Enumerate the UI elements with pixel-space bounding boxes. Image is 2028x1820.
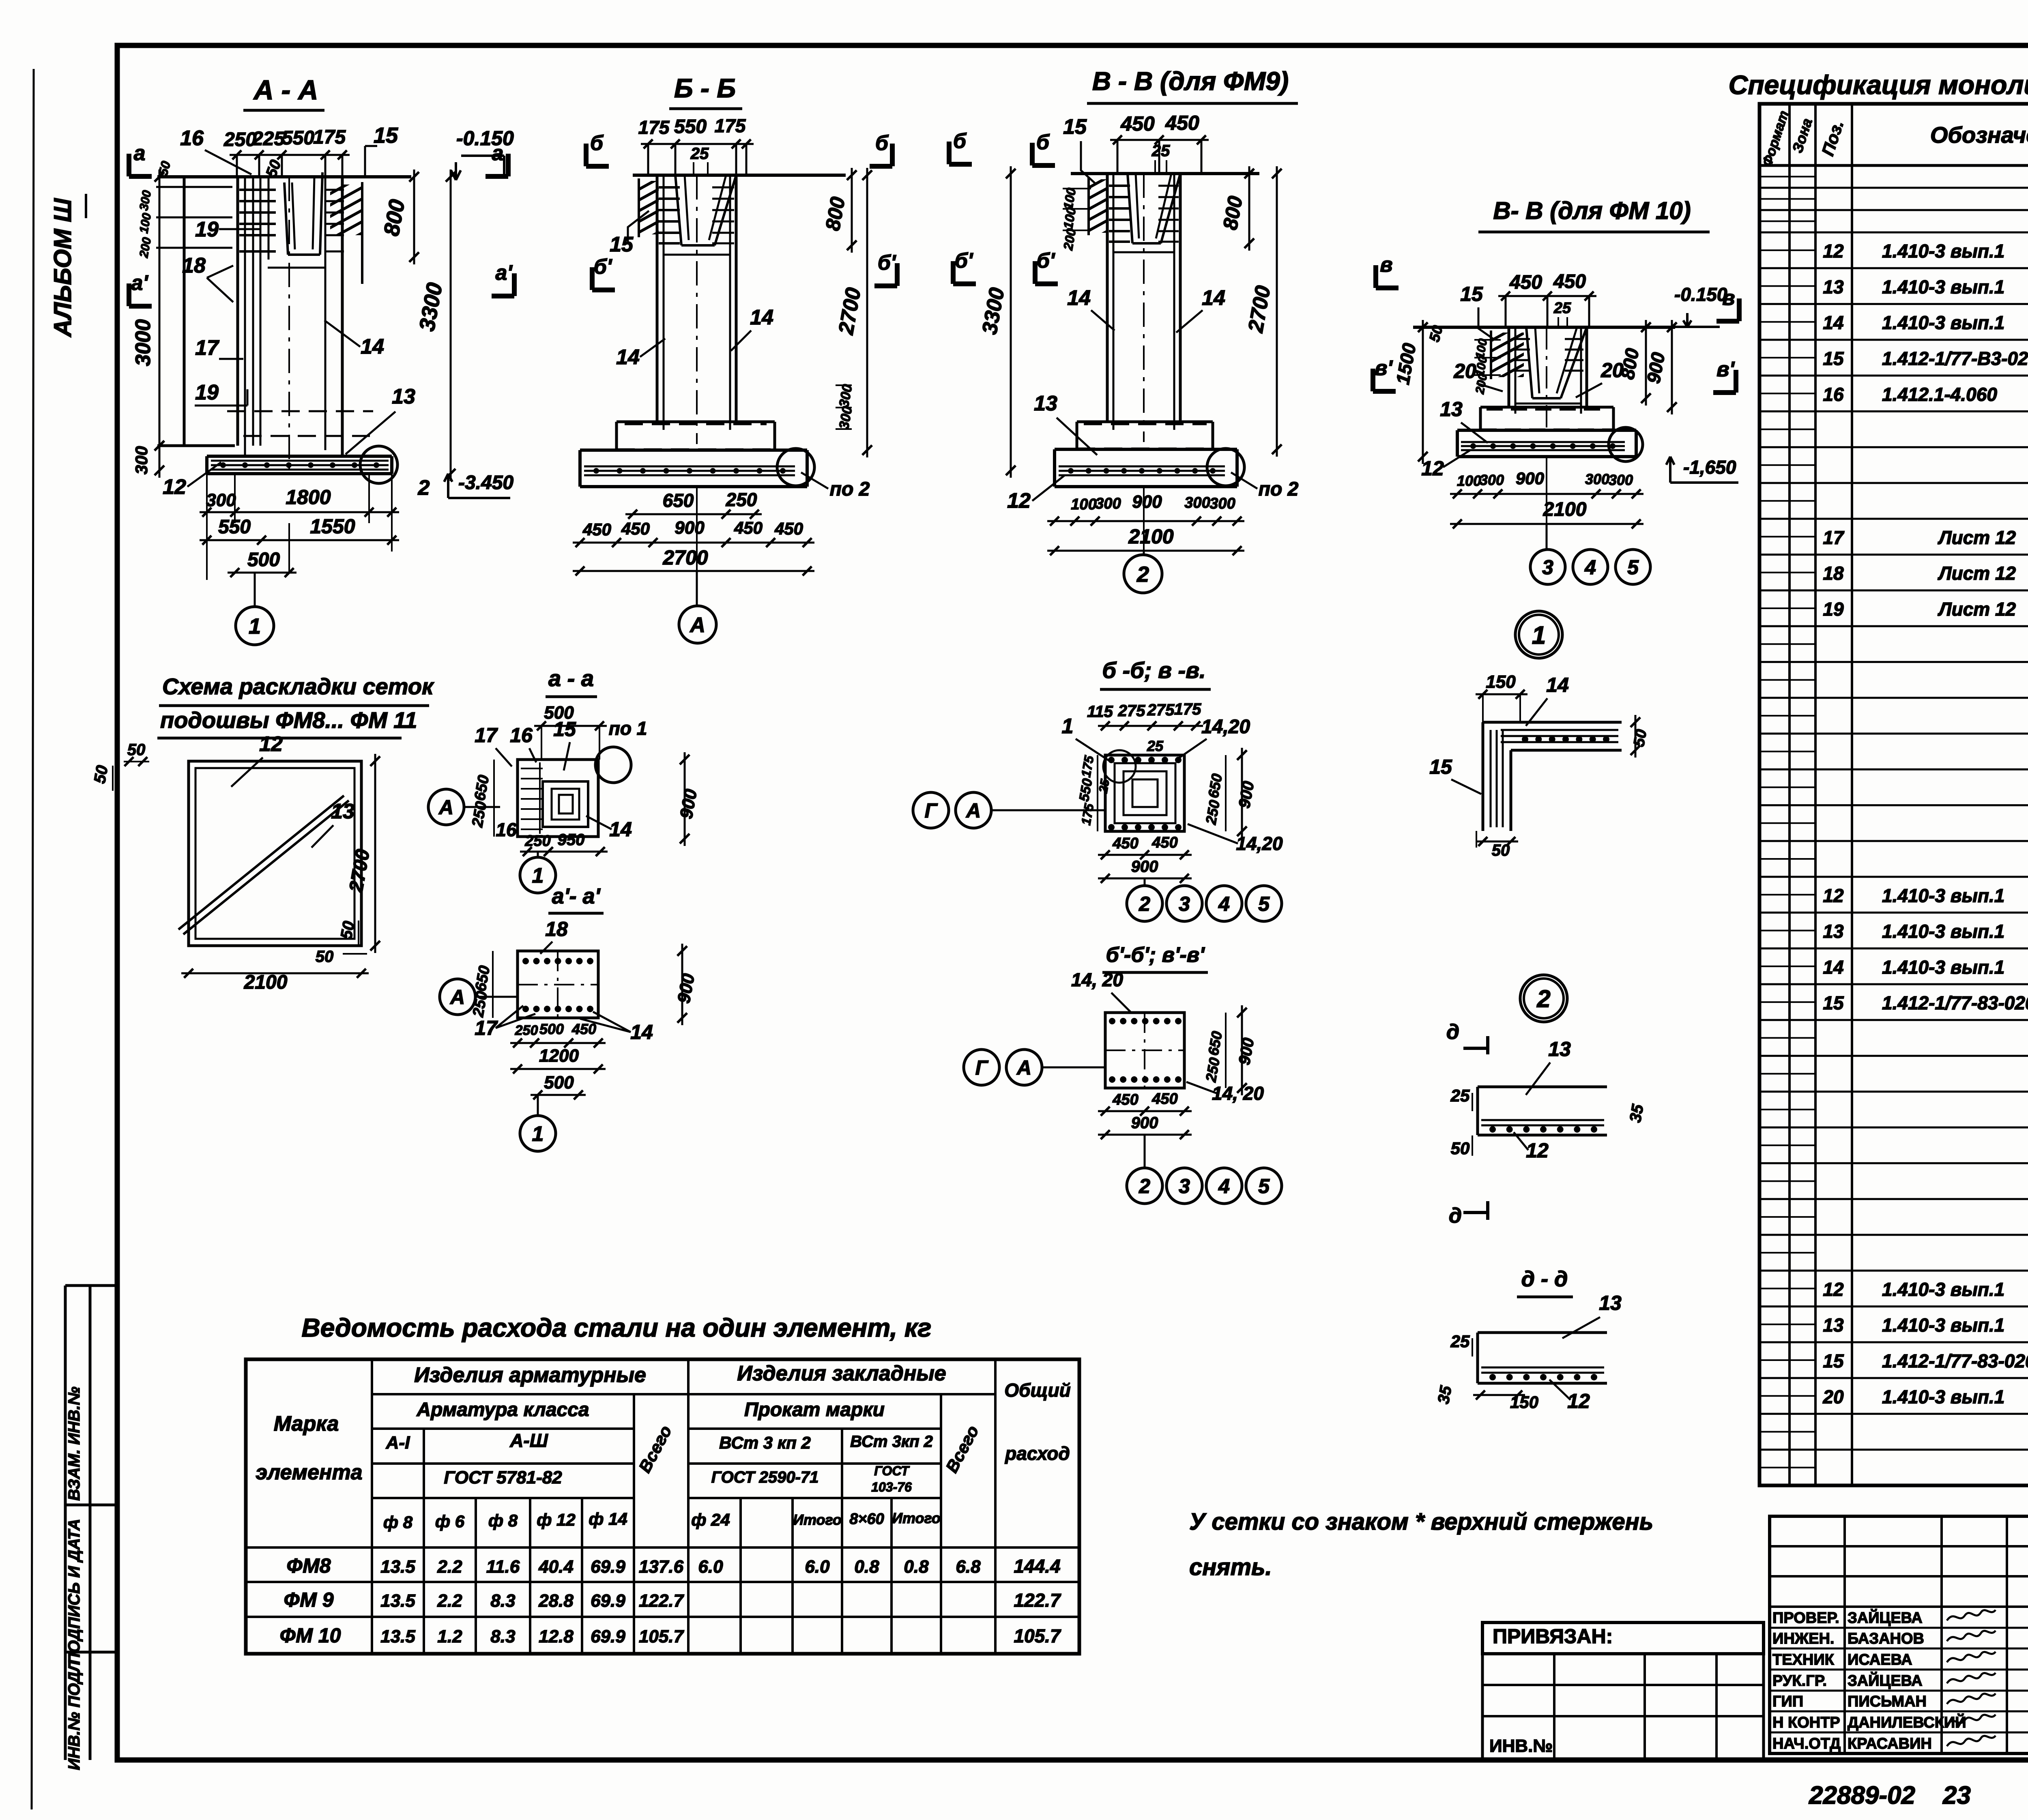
svg-text:ФМ 10: ФМ 10 — [280, 1624, 341, 1647]
svg-text:2100: 2100 — [1128, 525, 1173, 548]
section A-A ground line — [157, 175, 411, 178]
svg-text:б': б' — [955, 249, 973, 273]
svg-text:1.412.1-4.060: 1.412.1-4.060 — [1882, 384, 1997, 405]
svg-text:12: 12 — [1526, 1139, 1549, 1162]
svg-text:элемента: элемента — [256, 1461, 362, 1484]
detail d-d dims — [1435, 1332, 1590, 1412]
svg-text:275: 275 — [1118, 702, 1145, 720]
svg-text:69.9: 69.9 — [591, 1557, 625, 1577]
section B-B top dims — [638, 115, 754, 175]
section V-V FM9 cut marks — [949, 129, 1058, 284]
svg-text:ГОСТ 2590-71: ГОСТ 2590-71 — [711, 1468, 819, 1486]
svg-text:А: А — [965, 799, 981, 822]
svg-text:16: 16 — [496, 819, 517, 840]
svg-text:ИСАЕВА: ИСАЕВА — [1848, 1651, 1912, 1668]
svg-text:5: 5 — [1258, 1175, 1270, 1198]
svg-text:1.412-1/77-83-020: 1.412-1/77-83-020 — [1882, 1350, 2028, 1371]
section B-B hatch block — [635, 165, 663, 256]
svg-text:300: 300 — [132, 446, 151, 474]
svg-text:12: 12 — [1567, 1390, 1590, 1412]
spec rows FM9 group — [1823, 809, 2028, 1121]
svg-text:1800: 1800 — [286, 486, 331, 509]
svg-text:ф 12: ф 12 — [537, 1510, 576, 1529]
detail 2 big circle — [1520, 975, 1567, 1022]
section A-A cut marks a — [129, 142, 514, 306]
svg-text:150: 150 — [1486, 672, 1516, 692]
svg-text:ЗАЙЦЕВА: ЗАЙЦЕВА — [1848, 1608, 1923, 1627]
svg-text:225: 225 — [252, 128, 285, 150]
section V-V FM10 footing — [1457, 407, 1636, 457]
section V-V FM9 label 14 left — [1067, 286, 1115, 331]
svg-text:Общий: Общий — [1004, 1380, 1070, 1401]
svg-text:4: 4 — [1584, 556, 1596, 579]
svg-text:13.5: 13.5 — [380, 1591, 415, 1611]
section V-V FM10 dim 900 — [1643, 320, 1677, 414]
mesh scheme label 12 — [231, 732, 283, 787]
svg-text:4: 4 — [1218, 893, 1230, 915]
svg-text:144.4: 144.4 — [1014, 1556, 1060, 1577]
section A-A label 12 — [163, 462, 221, 499]
svg-text:а: а — [492, 142, 504, 165]
svg-text:25: 25 — [1450, 1332, 1470, 1351]
svg-text:ГОСТ: ГОСТ — [874, 1464, 910, 1478]
svg-text:ГИП: ГИП — [1772, 1693, 1803, 1710]
svg-text:б': б' — [594, 255, 612, 279]
svg-text:20: 20 — [1453, 360, 1476, 382]
svg-text:122.7: 122.7 — [639, 1591, 685, 1611]
svg-text:103-76: 103-76 — [871, 1480, 912, 1494]
svg-text:в': в' — [1716, 358, 1735, 381]
svg-text:20: 20 — [1822, 1386, 1844, 1407]
svg-text:ф 14: ф 14 — [589, 1509, 627, 1528]
svg-text:250: 250 — [515, 1023, 538, 1038]
svg-text:5: 5 — [1627, 556, 1639, 579]
svg-text:14: 14 — [609, 818, 632, 841]
svg-text:12: 12 — [1823, 885, 1844, 906]
detail b-b v-v title — [1100, 657, 1211, 689]
svg-text:Прокат марки: Прокат марки — [744, 1399, 885, 1421]
svg-text:ф 8: ф 8 — [383, 1513, 413, 1532]
svg-text:300: 300 — [1480, 472, 1504, 488]
svg-text:5: 5 — [1258, 893, 1270, 915]
svg-text:12: 12 — [1007, 489, 1031, 513]
detail 2 cut mark d top — [1446, 1020, 1488, 1054]
svg-text:14, 20: 14, 20 — [1212, 1083, 1264, 1104]
svg-text:550: 550 — [674, 116, 707, 137]
svg-text:2: 2 — [1139, 893, 1150, 915]
mesh scheme plan rectangle — [189, 761, 361, 946]
svg-text:300: 300 — [206, 490, 236, 510]
svg-text:25: 25 — [1096, 778, 1112, 794]
svg-text:б': б' — [878, 251, 896, 275]
section V-V FM9 label 13 — [1034, 392, 1097, 455]
svg-text:13: 13 — [1034, 392, 1057, 415]
detail 2 label 13 — [1526, 1038, 1571, 1095]
svg-text:ВСт 3кп 2: ВСт 3кп 2 — [850, 1433, 933, 1451]
section V-V FM10 left small dims — [1473, 338, 1501, 395]
svg-text:13: 13 — [392, 385, 415, 408]
section B-B dims 650 250 — [625, 489, 762, 519]
section V-V FM10 bottom dims — [1450, 457, 1643, 528]
svg-text:500: 500 — [539, 1021, 564, 1037]
detail b-b label 14 20 bottom — [1188, 824, 1283, 854]
detail b-b label 14 20 top — [1175, 716, 1250, 760]
svg-text:300: 300 — [1184, 494, 1210, 511]
svg-text:15: 15 — [1429, 755, 1452, 778]
svg-text:12.8: 12.8 — [539, 1627, 574, 1646]
svg-text:14: 14 — [1823, 957, 1843, 978]
svg-text:450: 450 — [1509, 272, 1542, 293]
svg-text:13: 13 — [1823, 921, 1844, 942]
section A-A elevation -0.150 — [451, 127, 514, 180]
svg-text:13: 13 — [1823, 276, 1844, 297]
detail b'-b' section view — [1105, 1013, 1184, 1088]
detail b'-b' label 14 20 bottom — [1186, 1082, 1264, 1104]
section A-A label 18 — [182, 254, 233, 302]
section B-B dims 450 row — [573, 518, 814, 547]
svg-text:1.410-3 вып.1: 1.410-3 вып.1 — [1882, 1315, 2004, 1336]
svg-text:б: б — [875, 131, 889, 155]
detail a-a label 14 — [586, 816, 632, 841]
svg-text:Изделия закладные: Изделия закладные — [737, 1362, 946, 1385]
svg-text:450: 450 — [774, 519, 803, 538]
section V-V FM9 label 14 right — [1176, 286, 1225, 333]
svg-text:д - д: д - д — [1521, 1267, 1568, 1291]
specification table grid — [1759, 104, 2028, 1485]
svg-text:1: 1 — [1062, 715, 1074, 738]
svg-text:8.3: 8.3 — [490, 1591, 515, 1611]
svg-text:450: 450 — [1112, 1091, 1138, 1108]
svg-text:17: 17 — [1823, 527, 1845, 548]
steel table grid — [246, 1359, 1079, 1654]
svg-text:450: 450 — [1120, 112, 1155, 135]
svg-text:14: 14 — [1546, 674, 1569, 696]
svg-text:А-Ш: А-Ш — [509, 1430, 548, 1451]
svg-text:ТЕХНИК: ТЕХНИК — [1772, 1651, 1835, 1668]
section B-B ground line — [633, 174, 846, 177]
section V-V FM10 footing circle — [1609, 427, 1643, 461]
svg-text:15: 15 — [1063, 115, 1087, 139]
svg-text:175: 175 — [313, 127, 346, 148]
detail a-a right dim 900 — [676, 752, 701, 846]
svg-text:19: 19 — [1823, 599, 1844, 620]
detail a'-a' left dims — [470, 951, 494, 1019]
section A-A hatch block — [326, 163, 366, 284]
svg-text:15: 15 — [553, 718, 576, 740]
svg-text:д: д — [1446, 1020, 1459, 1044]
detail a'-a' axis circle 1 — [520, 1095, 556, 1151]
svg-text:50: 50 — [1631, 728, 1650, 748]
svg-text:550: 550 — [218, 516, 251, 538]
svg-text:14,20: 14,20 — [1236, 833, 1283, 854]
svg-text:13.5: 13.5 — [380, 1627, 415, 1646]
svg-text:105.7: 105.7 — [639, 1627, 685, 1646]
album label — [49, 194, 86, 338]
svg-text:-0.150: -0.150 — [456, 127, 514, 150]
section B-B label 14 left — [616, 339, 665, 369]
mesh scheme label 13 — [312, 800, 354, 848]
svg-text:175: 175 — [1174, 700, 1201, 718]
section A-A column — [238, 177, 342, 470]
section A-A footing circle — [360, 446, 397, 483]
svg-text:ф 8: ф 8 — [488, 1511, 518, 1530]
svg-text:22889-02: 22889-02 — [1809, 1781, 1915, 1809]
spec rows FM10 group — [1822, 1202, 2028, 1479]
svg-text:6.8: 6.8 — [956, 1557, 981, 1577]
svg-text:б'-б'; в'-в': б'-б'; в'-в' — [1106, 943, 1205, 967]
svg-text:Лист 12: Лист 12 — [1938, 563, 2016, 584]
section B-B right small dims — [836, 383, 855, 431]
svg-text:250: 250 — [726, 489, 757, 510]
svg-text:12: 12 — [1823, 240, 1844, 262]
section V-V FM9 footing — [1055, 422, 1237, 487]
svg-text:50: 50 — [316, 948, 334, 966]
svg-text:а': а' — [131, 271, 148, 295]
section V-V FM9 label po2 — [1231, 472, 1299, 500]
svg-text:50: 50 — [1451, 1139, 1470, 1158]
corner detail 1 L-shape — [1483, 722, 1622, 831]
svg-text:РУК.ГР.: РУК.ГР. — [1772, 1672, 1827, 1689]
detail a'-a' bottom dims — [510, 1021, 606, 1099]
svg-text:б': б' — [1037, 249, 1055, 273]
svg-text:100: 100 — [1071, 496, 1096, 513]
section B-B dim 2700 bottom — [573, 487, 814, 575]
section B-B footing circle — [777, 449, 814, 486]
svg-text:НАЧ.ОТД: НАЧ.ОТД — [1772, 1735, 1841, 1752]
corner detail 1 label 15 — [1429, 755, 1481, 794]
svg-text:ФМ8: ФМ8 — [286, 1554, 331, 1577]
svg-text:50: 50 — [337, 920, 358, 940]
section B-B label 15 — [610, 211, 649, 256]
svg-text:2: 2 — [1136, 562, 1149, 586]
section V-V FM9 title — [1087, 67, 1298, 103]
detail b-b top dims — [1087, 700, 1203, 754]
svg-text:Б - Б: Б - Б — [674, 73, 736, 103]
section V-V FM9 ground line — [1071, 172, 1259, 175]
section A-A rebar hooks — [239, 190, 344, 251]
svg-text:2700: 2700 — [662, 546, 708, 569]
detail a-a plan view — [518, 760, 598, 837]
section V-V FM9 left small dims — [1061, 187, 1091, 251]
section V-V FM10 elevation -1.650 — [1666, 457, 1738, 483]
corner detail 1 dims 150 — [1476, 672, 1527, 722]
section A-A dim 3000 — [131, 170, 164, 453]
svg-text:15: 15 — [610, 233, 634, 256]
svg-text:Лист 12: Лист 12 — [1938, 527, 2016, 548]
svg-text:14: 14 — [1823, 312, 1843, 333]
svg-text:Н КОНТР: Н КОНТР — [1772, 1714, 1840, 1731]
svg-text:14: 14 — [1202, 286, 1225, 310]
svg-text:18: 18 — [182, 254, 206, 277]
svg-text:В- В (для ФМ 10): В- В (для ФМ 10) — [1493, 197, 1691, 224]
svg-text:б -б; в -в.: б -б; в -в. — [1102, 657, 1205, 683]
svg-text:12: 12 — [1823, 1279, 1844, 1300]
svg-text:Г: Г — [925, 799, 938, 822]
detail 2 slab — [1478, 1087, 1607, 1135]
svg-text:А-I: А-I — [386, 1433, 410, 1453]
section V-V FM9 dim 3300 — [978, 166, 1016, 478]
svg-text:2: 2 — [418, 476, 430, 500]
detail 2 dims — [1450, 1086, 1647, 1162]
svg-text:13: 13 — [1440, 398, 1463, 421]
svg-text:450: 450 — [1553, 271, 1586, 292]
spec rows details group — [1823, 488, 2028, 728]
detail a-a title — [546, 665, 597, 697]
svg-text:13: 13 — [1823, 1315, 1844, 1336]
svg-text:12: 12 — [1421, 457, 1444, 480]
svg-text:2: 2 — [1536, 985, 1550, 1013]
section A-A title — [243, 75, 324, 110]
corner detail 1 dim 50 right — [1631, 715, 1650, 758]
section A-A label 19 lower — [195, 381, 247, 406]
svg-text:0.8: 0.8 — [854, 1557, 879, 1577]
svg-text:14: 14 — [1067, 286, 1091, 310]
svg-text:175: 175 — [715, 115, 746, 136]
section B-B label 14 right — [731, 306, 773, 351]
svg-text:8×60: 8×60 — [849, 1511, 884, 1528]
svg-text:450: 450 — [1151, 834, 1177, 851]
svg-text:А - А: А - А — [253, 75, 318, 105]
detail b'-b' title — [1102, 943, 1208, 972]
svg-text:а'- а': а'- а' — [552, 884, 601, 908]
section V-V FM9 rebar hooks — [1109, 186, 1179, 242]
section B-B footing — [580, 422, 807, 487]
svg-text:50: 50 — [127, 741, 146, 759]
section A-A dim 300 left — [132, 438, 164, 478]
section V-V FM10 anchor funnel — [1515, 327, 1587, 403]
svg-text:14: 14 — [361, 335, 384, 358]
svg-text:Г: Г — [975, 1056, 989, 1079]
section A-A label 16 — [180, 127, 251, 174]
svg-text:3: 3 — [1179, 1175, 1190, 1198]
svg-text:Ведомость расхода стали на оди: Ведомость расхода стали на один элемент,… — [302, 1313, 932, 1342]
detail b'-b' bottom dims — [1098, 1090, 1192, 1139]
svg-text:А: А — [449, 986, 465, 1009]
svg-text:300: 300 — [1585, 471, 1609, 487]
svg-text:1.410-3 вып.1: 1.410-3 вып.1 — [1882, 276, 2004, 297]
svg-text:4: 4 — [1218, 1175, 1230, 1198]
detail b-b bottom dims — [1098, 834, 1192, 883]
detail d-d slab — [1478, 1333, 1607, 1383]
below frame annotations — [1809, 1781, 2028, 1809]
detail a-a labels top — [475, 718, 647, 783]
svg-text:115: 115 — [1087, 703, 1113, 721]
svg-text:25: 25 — [1553, 300, 1571, 317]
svg-text:1: 1 — [532, 1122, 544, 1146]
mesh scheme small dims bottom — [316, 920, 367, 966]
section B-B dim 2700 — [834, 168, 872, 457]
section V-V FM10 dim 800 — [1617, 320, 1651, 406]
svg-text:450: 450 — [1151, 1090, 1177, 1107]
svg-text:2.2: 2.2 — [437, 1557, 462, 1577]
svg-text:175: 175 — [638, 117, 670, 138]
title block privyazan grid — [1482, 1654, 1764, 1760]
svg-text:100: 100 — [1457, 472, 1481, 489]
section V-V FM9 label 12 — [1007, 475, 1065, 513]
svg-text:2100: 2100 — [244, 972, 288, 993]
section V-V FM10 title — [1478, 197, 1710, 232]
svg-text:3: 3 — [1542, 556, 1553, 579]
svg-text:900: 900 — [1516, 469, 1544, 488]
svg-text:ВСт 3 кп 2: ВСт 3 кп 2 — [719, 1433, 811, 1452]
svg-text:по 2: по 2 — [1259, 479, 1299, 500]
svg-text:500: 500 — [247, 549, 280, 571]
detail a-a label 16 bottom — [496, 819, 517, 840]
detail b-b datum circles G A — [913, 792, 1105, 828]
section B-B column — [657, 175, 736, 444]
svg-text:Изделия арматурные: Изделия арматурные — [414, 1363, 646, 1387]
section B-B axis circle A — [679, 571, 716, 643]
svg-text:1.410-3 вып.1: 1.410-3 вып.1 — [1882, 921, 2004, 942]
svg-text:ЗАЙЦЕВА: ЗАЙЦЕВА — [1848, 1671, 1923, 1689]
detail a-a dim 500 — [534, 703, 607, 760]
section A-A dim 3300 — [415, 170, 455, 481]
svg-text:1.410-3 вып.1: 1.410-3 вып.1 — [1882, 240, 2004, 262]
section V-V FM10 top dims — [1498, 271, 1596, 327]
svg-text:1: 1 — [249, 614, 261, 638]
svg-text:122.7: 122.7 — [1014, 1590, 1061, 1611]
detail a'-a' section view — [518, 951, 598, 1018]
svg-text:450: 450 — [734, 518, 763, 537]
section A-A footing — [157, 411, 392, 474]
svg-text:550: 550 — [282, 127, 314, 149]
mesh layout scheme title — [157, 674, 434, 738]
detail b'-b' label 14 20 — [1071, 969, 1132, 1013]
svg-text:50: 50 — [1492, 841, 1510, 859]
svg-text:14,20: 14,20 — [1201, 716, 1250, 738]
section A-A label 14 — [324, 320, 384, 358]
detail d-d title — [1517, 1267, 1573, 1297]
section B-B rebar hooks — [659, 187, 734, 243]
svg-text:900: 900 — [1131, 1114, 1158, 1132]
section V-V FM10 label 20 left — [1453, 360, 1503, 391]
svg-text:А: А — [438, 796, 453, 819]
title block signature table — [1770, 1516, 2028, 1753]
section A-A elevation -3.450 — [444, 472, 513, 498]
svg-text:300: 300 — [1095, 495, 1121, 512]
svg-text:13: 13 — [1548, 1038, 1571, 1060]
svg-text:105.7: 105.7 — [1014, 1625, 1061, 1646]
svg-text:6.0: 6.0 — [698, 1557, 723, 1577]
specification table header texts — [1759, 109, 2028, 168]
svg-text:14: 14 — [630, 1021, 653, 1043]
svg-text:500: 500 — [544, 1073, 574, 1092]
section B-B dim 800 — [821, 168, 857, 253]
section A-A left small dims — [137, 159, 232, 259]
svg-text:450: 450 — [571, 1021, 596, 1037]
section V-V FM10 hatch block — [1487, 310, 1528, 406]
title block privyazan box — [1482, 1623, 1764, 1654]
svg-text:ИНВ.№: ИНВ.№ — [1489, 1736, 1553, 1756]
svg-text:1.410-3 вып.1: 1.410-3 вып.1 — [1882, 1279, 2004, 1300]
svg-text:1.410-3 вып.1: 1.410-3 вып.1 — [1882, 885, 2004, 906]
svg-text:-3.450: -3.450 — [458, 472, 513, 494]
svg-text:ф 24: ф 24 — [691, 1510, 730, 1529]
steel table title — [302, 1313, 932, 1342]
svg-text:18: 18 — [1823, 563, 1844, 584]
detail a'-a' label 18 — [540, 918, 568, 954]
detail a-a bottom dims — [520, 831, 608, 856]
corner detail 1 dim 50 bottom — [1476, 831, 1518, 859]
mesh scheme small dims top — [91, 741, 149, 791]
svg-text:14: 14 — [616, 346, 640, 369]
svg-text:расход: расход — [1004, 1443, 1070, 1464]
svg-text:28.8: 28.8 — [538, 1591, 574, 1611]
svg-text:25: 25 — [1151, 142, 1170, 160]
section V-V FM10 ground line — [1413, 326, 1675, 329]
section A-A anchor funnel — [268, 172, 325, 268]
svg-text:ПРОВЕР.: ПРОВЕР. — [1772, 1610, 1839, 1627]
